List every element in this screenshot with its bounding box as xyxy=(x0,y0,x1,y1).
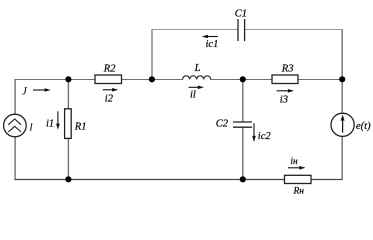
current source I chevron 1 xyxy=(8,119,21,125)
svg-text:R2: R2 xyxy=(103,63,116,74)
svg-text:il: il xyxy=(190,90,196,101)
resistor R1 body xyxy=(65,109,72,139)
wire riser from node B up to C1 branch xyxy=(151,29,153,79)
capacitor C2 plates xyxy=(233,122,252,127)
current arrow ic1 (leftward) xyxy=(202,35,218,39)
current arrow i3 xyxy=(277,89,294,93)
resistor R2 body xyxy=(95,75,122,84)
svg-text:Rн: Rн xyxy=(293,187,305,196)
resistor Rn body xyxy=(285,175,312,183)
current arrow il xyxy=(189,86,205,90)
current arrow J xyxy=(33,88,51,92)
wire left rail lower (source I to bottom rail) xyxy=(14,137,16,180)
current arrow i1 (downward) xyxy=(56,111,60,130)
svg-text:i1: i1 xyxy=(46,118,54,129)
wire main rail: inductor L to R3 xyxy=(210,79,272,81)
wire main rail: R3 to right rail xyxy=(298,79,343,81)
wire top-right segment (C1 right plate to right rail) xyxy=(245,29,343,31)
wire right rail upper (top corner to node with R3) xyxy=(341,30,343,114)
svg-text:iн: iн xyxy=(290,157,298,167)
junction node at C2 top xyxy=(240,76,246,82)
current arrow in (bottom, rightward) xyxy=(288,166,306,170)
capacitor C1 plates xyxy=(238,19,245,41)
svg-text:L: L xyxy=(194,63,201,74)
inductor L coil xyxy=(183,76,211,80)
junction node at R1 bottom xyxy=(65,176,71,182)
svg-text:ic2: ic2 xyxy=(258,131,272,142)
wire bottom rail: left corner to Rn xyxy=(14,179,284,181)
wire R1 branch lower xyxy=(67,138,69,180)
wire main rail: left corner to R2 xyxy=(14,79,95,81)
resistor R3 body xyxy=(272,75,298,84)
junction node at R1 top xyxy=(65,76,71,82)
wire bottom rail: Rn to right corner xyxy=(311,179,343,181)
current arrow i2 xyxy=(103,88,119,92)
svg-text:I: I xyxy=(28,122,33,133)
wire C2 branch lower xyxy=(242,127,244,180)
junction node at C2 bottom xyxy=(240,176,246,182)
svg-text:J: J xyxy=(22,85,28,97)
svg-text:i2: i2 xyxy=(105,93,114,104)
voltage source e(t) circle xyxy=(331,113,354,136)
junction node at R3 right / right rail xyxy=(339,76,345,82)
svg-text:R1: R1 xyxy=(74,122,87,133)
wire left rail upper (corner to source I) xyxy=(14,79,16,114)
current source I chevron 2 xyxy=(8,126,21,132)
svg-text:C1: C1 xyxy=(235,9,247,20)
junction node B (R2 / L / C1 riser) xyxy=(149,76,155,82)
voltage source e(t) internal up arrow xyxy=(341,115,345,133)
current source I circle xyxy=(4,114,27,137)
svg-text:ic1: ic1 xyxy=(206,39,219,50)
wire main rail: R2 to inductor L xyxy=(122,79,184,81)
svg-text:e(t): e(t) xyxy=(356,121,371,132)
svg-text:R3: R3 xyxy=(281,63,294,74)
wire C2 branch upper xyxy=(242,79,244,122)
wire R1 branch upper xyxy=(67,79,69,109)
svg-text:C2: C2 xyxy=(216,119,229,130)
svg-text:i3: i3 xyxy=(280,94,288,105)
wire right rail lower (e(t) source to bottom rail) xyxy=(341,137,343,180)
wire top-left segment (riser junction to C1 left plate) xyxy=(152,29,238,31)
current arrow ic2 (downward) xyxy=(252,123,256,142)
